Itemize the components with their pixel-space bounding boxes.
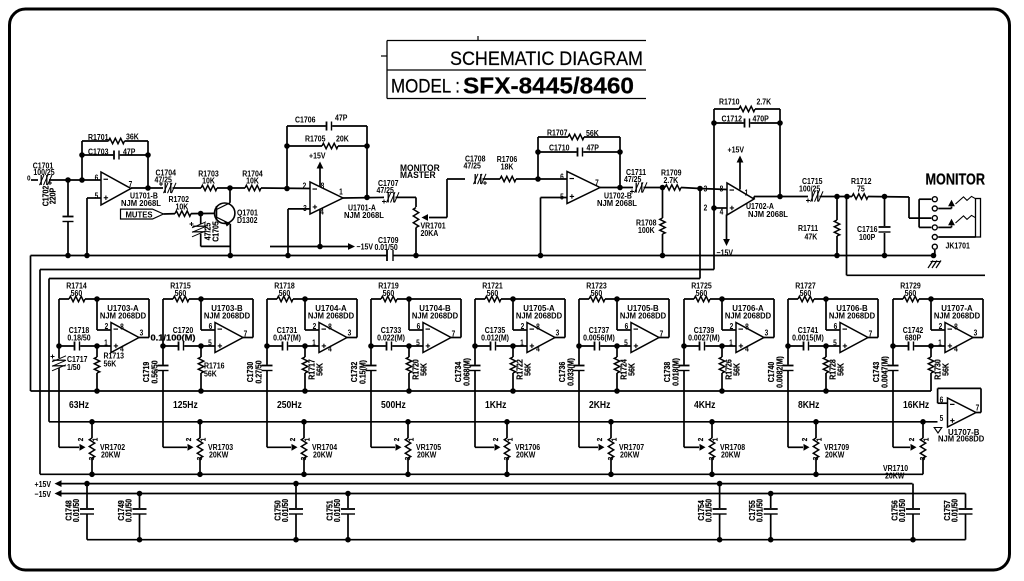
- junction C1750 bottom: [293, 537, 299, 543]
- junction C1710 right: [617, 149, 623, 155]
- svg-text:−15V: −15V: [35, 489, 52, 499]
- label 2KHz: [589, 398, 611, 410]
- wire band5 left: [474, 299, 476, 346]
- junction pin5 ground: [84, 253, 90, 259]
- wire R1702 to base: [191, 212, 215, 214]
- svg-text:NJM 2068DD: NJM 2068DD: [829, 311, 875, 320]
- junction U1701-A inv input: [284, 186, 290, 192]
- wire wiper band3: [267, 444, 298, 451]
- wire rail to gnd bus: [31, 256, 932, 392]
- resistor R1711: [798, 197, 840, 256]
- junction VR1705 top: [405, 419, 411, 425]
- capacitor C1706: [287, 113, 367, 131]
- capacitor C1702: [41, 180, 74, 256]
- wire feedback 4: [451, 299, 461, 338]
- svg-text:2: 2: [802, 438, 810, 442]
- junction VR1701 rail: [413, 253, 419, 259]
- svg-text:0.033(M): 0.033(M): [566, 358, 576, 386]
- junction monitor line tap: [844, 194, 850, 200]
- svg-text:1: 1: [408, 438, 416, 442]
- svg-text:SFX-8445/8460: SFX-8445/8460: [463, 73, 634, 99]
- wire band2 left: [162, 299, 164, 346]
- svg-text:500Hz: 500Hz: [381, 398, 406, 410]
- wire input: [31, 179, 38, 181]
- svg-text:3: 3: [140, 328, 144, 338]
- title block box: [381, 36, 646, 99]
- svg-text:8KHz: 8KHz: [798, 398, 820, 410]
- svg-text:0.01/50: 0.01/50: [704, 499, 714, 522]
- junction R1725 right: [719, 296, 725, 302]
- wire pin2 band3: [305, 299, 319, 330]
- ground rail: [31, 255, 934, 257]
- junction base node: [198, 211, 204, 217]
- model label MODEL :: [391, 77, 460, 98]
- svg-text:100K: 100K: [638, 225, 655, 235]
- junction VR1704 top: [301, 419, 307, 425]
- wire feedback 9: [973, 299, 983, 338]
- svg-text:0.01/50: 0.01/50: [332, 499, 342, 522]
- wire pin5: [87, 198, 101, 256]
- op-amp U1706-B: [829, 304, 875, 353]
- svg-text:56K: 56K: [419, 363, 429, 376]
- svg-text:R1707: R1707: [547, 128, 568, 138]
- junction C1749 bottom: [137, 537, 143, 543]
- wire fb left arm: [286, 126, 288, 189]
- junction emitter rail: [228, 253, 234, 259]
- jack JK1701: [919, 196, 980, 255]
- svg-text:6: 6: [560, 172, 564, 182]
- junction R1723 right: [614, 296, 620, 302]
- svg-text:8: 8: [954, 322, 958, 332]
- wire feedback right: [147, 141, 149, 188]
- capacitor C1712: [714, 114, 780, 128]
- svg-text:NJM 2068DD: NJM 2068DD: [934, 311, 980, 320]
- capacitor C1756: [890, 484, 920, 540]
- node input 0: [27, 175, 31, 183]
- svg-text:2: 2: [78, 438, 86, 442]
- wire pin2 band9: [931, 299, 945, 330]
- junction VR1705 bottom: [405, 472, 411, 478]
- svg-text:8: 8: [120, 322, 124, 332]
- junction VR1708 bottom: [709, 472, 715, 478]
- svg-text:7: 7: [595, 178, 599, 188]
- label 1KHz: [485, 398, 507, 410]
- label 63Hz: [69, 398, 89, 410]
- bus noninv eq: [40, 269, 714, 271]
- wire feedback 7: [764, 299, 774, 338]
- resistor R1720 56K: [406, 346, 429, 391]
- wire pin2 band5: [513, 299, 527, 330]
- op-amp U1702-B: [560, 172, 637, 209]
- resistor R1701: [82, 132, 148, 144]
- capacitor C1736: [557, 343, 584, 447]
- svg-text:0.0027(M): 0.0027(M): [688, 333, 720, 343]
- capacitor C1730: [245, 343, 272, 447]
- wire U1701-A noninv: [288, 209, 310, 256]
- capacitor C1717: [51, 343, 88, 447]
- svg-text:NJM 2068L: NJM 2068L: [121, 199, 161, 208]
- wire MUTES to R1702: [164, 213, 178, 215]
- op-amp U1705-B: [620, 304, 666, 353]
- junction C1712 left: [711, 120, 717, 126]
- svg-text:0.56/50: 0.56/50: [150, 360, 160, 383]
- wire pin2 band8: [826, 299, 840, 330]
- svg-text:NJM 2068DD: NJM 2068DD: [100, 311, 146, 320]
- svg-text:56K: 56K: [836, 363, 846, 376]
- resistor R1713 56K: [94, 346, 124, 391]
- svg-text:0.01/50: 0.01/50: [755, 499, 765, 522]
- svg-text:36K: 36K: [126, 132, 139, 142]
- svg-text:R1705: R1705: [305, 134, 326, 144]
- junction C1750 top: [293, 481, 299, 487]
- svg-text:7: 7: [976, 403, 980, 413]
- svg-text:18K: 18K: [501, 162, 514, 172]
- junction plus input band2: [198, 343, 204, 349]
- junction input node: [65, 177, 71, 183]
- junction C1756 bottom: [910, 537, 916, 543]
- wire collector: [229, 188, 231, 203]
- wire R1703 to R1704: [217, 187, 245, 189]
- power -15V rail: [35, 489, 966, 499]
- svg-text:560: 560: [279, 288, 291, 298]
- junction plus input band9: [928, 343, 934, 349]
- svg-text:20KW: 20KW: [885, 471, 905, 481]
- wire pin2 band6: [617, 299, 631, 330]
- svg-text:560: 560: [800, 288, 812, 298]
- svg-text:7: 7: [452, 329, 456, 339]
- junction feedback tap: [79, 177, 85, 183]
- wire R1704 to U1701-A: [261, 187, 310, 190]
- svg-text:0.047(M): 0.047(M): [273, 333, 301, 343]
- svg-text:NJM 2068DD: NJM 2068DD: [620, 311, 666, 320]
- svg-text:1/50: 1/50: [67, 362, 81, 372]
- label 250Hz: [277, 398, 302, 410]
- svg-text:47/25: 47/25: [155, 175, 173, 185]
- svg-text:C1705: C1705: [211, 221, 221, 242]
- svg-text:16KHz: 16KHz: [903, 398, 929, 410]
- svg-text:JK1701: JK1701: [946, 241, 971, 251]
- wire wiper band8: [788, 444, 810, 451]
- label MONITOR MASTER: [400, 162, 440, 180]
- svg-text:1: 1: [507, 438, 515, 442]
- capacitor C1715: [799, 176, 823, 202]
- svg-text:1KHz: 1KHz: [485, 398, 507, 410]
- wire band9 left: [892, 299, 894, 346]
- svg-text:C1710: C1710: [549, 143, 570, 153]
- junction C1702 ground: [65, 253, 71, 259]
- junction collector node: [227, 185, 233, 191]
- op-amp U1706-A: [725, 304, 771, 354]
- junction U1702-B inv: [535, 176, 541, 182]
- svg-text:47/25: 47/25: [377, 185, 395, 195]
- svg-text:3: 3: [704, 184, 708, 194]
- junction U1701-B out: [145, 185, 151, 191]
- junction VR1709 top: [813, 419, 819, 425]
- op-amp U1707-A: [934, 304, 980, 354]
- wire bus to VR bottom bus: [40, 270, 923, 475]
- junction VR1707 bottom: [608, 472, 614, 478]
- resistor R1724 56K: [614, 346, 637, 391]
- resistor R1727 560: [788, 281, 878, 302]
- svg-text:0.0047(M): 0.0047(M): [880, 356, 890, 388]
- svg-text:4: 4: [536, 344, 540, 354]
- wire wiper band1: [59, 444, 86, 451]
- junction C1754 top: [717, 481, 723, 487]
- wire C1707 to VR1701: [396, 197, 417, 207]
- flag MUTES: [121, 209, 164, 219]
- op-amp U1705-A: [516, 304, 562, 354]
- svg-text:1: 1: [92, 438, 100, 442]
- wire jack feed: [909, 197, 931, 218]
- svg-text:20KW: 20KW: [620, 450, 640, 460]
- junction plus input band7: [719, 343, 725, 349]
- junction R1728 gnd bus: [823, 388, 829, 394]
- svg-text:2: 2: [909, 438, 917, 442]
- svg-text:0.01/50: 0.01/50: [280, 499, 290, 522]
- svg-text:3: 3: [608, 457, 616, 461]
- title text SCHEMATIC DIAGRAM: [450, 49, 643, 70]
- wire pin4 down: [319, 209, 321, 247]
- svg-text:4KHz: 4KHz: [694, 398, 716, 410]
- resistor R1722 56K: [510, 346, 533, 391]
- resistor R1717 56K: [302, 346, 325, 391]
- capacitor C1757: [942, 494, 972, 540]
- svg-text:MODEL :: MODEL :: [391, 77, 460, 98]
- capacitor C1701: [33, 161, 56, 185]
- svg-text:10K: 10K: [176, 202, 189, 212]
- junction out fb2: [617, 185, 623, 191]
- svg-text:0.01/50: 0.01/50: [124, 499, 134, 522]
- capacitor C1718: [59, 325, 111, 350]
- wire C1708 to R1706: [483, 178, 501, 180]
- wire R1712 to C1716: [868, 196, 909, 199]
- capacitor C1742: [893, 325, 945, 350]
- capacitor C1734: [453, 343, 480, 447]
- wire wiper band2: [163, 444, 194, 451]
- svg-text:1: 1: [712, 438, 720, 442]
- svg-text:0.01/50: 0.01/50: [71, 499, 81, 522]
- svg-text:75: 75: [857, 184, 865, 194]
- resistor R1703: [198, 169, 219, 191]
- junction R1721 right: [510, 296, 516, 302]
- svg-text:2: 2: [303, 181, 307, 191]
- junction plus input band3: [302, 343, 308, 349]
- resistor R1705: [287, 134, 367, 149]
- svg-text:NJM 2068DD: NJM 2068DD: [308, 311, 354, 320]
- svg-text:4: 4: [954, 344, 958, 354]
- wire fb2 right arm: [619, 137, 621, 188]
- capacitor C1743: [871, 343, 898, 447]
- capacitor C1732: [349, 343, 376, 447]
- junction R1713 gnd bus: [94, 388, 100, 394]
- capacitor C1754: [697, 484, 727, 540]
- capacitor C1735: [475, 325, 527, 350]
- svg-text:C1712: C1712: [722, 114, 743, 124]
- wire input to opamp: [49, 179, 101, 181]
- svg-text:5: 5: [940, 414, 944, 424]
- svg-text:56K: 56K: [627, 363, 637, 376]
- wire band6 left: [578, 299, 580, 346]
- junction C1754 bottom: [717, 537, 723, 543]
- wire pin2 bus down: [713, 208, 715, 270]
- svg-text:3: 3: [197, 457, 205, 461]
- wire band1 left: [58, 299, 60, 346]
- junction C1749 top: [137, 491, 143, 497]
- junction R1727 right: [823, 296, 829, 302]
- wire fb2 left arm: [537, 137, 539, 179]
- model number SFX-8445/8460: [463, 73, 634, 99]
- svg-text:47P: 47P: [123, 147, 135, 157]
- junction C1751 bottom: [345, 537, 351, 543]
- capacitor C1707: [377, 178, 400, 203]
- junction plus input band8: [823, 343, 829, 349]
- svg-text:560: 560: [487, 288, 499, 298]
- op-amp U1703-A: [100, 304, 146, 354]
- junction VR1706 top: [504, 419, 510, 425]
- capacitor C1708: [464, 154, 488, 185]
- junction C1751 top: [345, 491, 351, 497]
- svg-text:20KW: 20KW: [209, 450, 229, 460]
- resistor R1708: [636, 188, 666, 256]
- svg-text:NJM 2068DD: NJM 2068DD: [412, 311, 458, 320]
- wire U1701-B output: [131, 187, 163, 189]
- wire wiper band9: [893, 444, 917, 451]
- svg-text:20KW: 20KW: [516, 450, 536, 460]
- junction jack ground: [931, 253, 937, 259]
- junction R1708 rail: [660, 253, 666, 259]
- op-amp U1707-B: [938, 388, 985, 443]
- svg-text:8: 8: [321, 181, 325, 191]
- junction eq feed: [697, 186, 703, 192]
- transistor Q1701: [215, 203, 259, 227]
- potentiometer VR1702: [78, 422, 126, 475]
- potentiometer VR1710: [883, 422, 931, 481]
- wire wiper to C1708: [447, 178, 465, 180]
- wire monitor aux: [847, 197, 986, 276]
- svg-text:NJM 2068L: NJM 2068L: [748, 210, 788, 219]
- svg-text:6: 6: [95, 173, 99, 183]
- capacitor C1755: [748, 494, 778, 540]
- svg-text:0.022(M): 0.022(M): [377, 333, 405, 343]
- capacitor C1704: [155, 168, 177, 193]
- wire band4 left: [370, 299, 372, 346]
- resistor R1702: [169, 194, 192, 216]
- svg-text:2: 2: [704, 203, 708, 213]
- junction pin5 rail: [538, 253, 544, 259]
- junction plus input band1: [94, 343, 100, 349]
- svg-text:7: 7: [244, 329, 248, 339]
- svg-text:100/25: 100/25: [33, 167, 55, 177]
- svg-text:56K: 56K: [586, 128, 599, 138]
- junction R1719 right: [406, 296, 412, 302]
- svg-text:560: 560: [591, 288, 603, 298]
- potentiometer VR1705: [394, 422, 442, 475]
- svg-text:8: 8: [745, 322, 749, 332]
- resistor R1730 56K: [928, 346, 951, 391]
- wire wiper band6: [579, 444, 605, 451]
- svg-text:NJM 2068DD: NJM 2068DD: [516, 311, 562, 320]
- svg-text:0.01/50: 0.01/50: [897, 499, 907, 522]
- capacitor C1720: [151, 325, 216, 350]
- svg-text:56K: 56K: [104, 359, 117, 369]
- junction VR1707 top: [608, 419, 614, 425]
- capacitor C1711: [624, 167, 647, 193]
- svg-text:NJM 2068L: NJM 2068L: [597, 199, 637, 208]
- junction R1711 top: [834, 194, 840, 200]
- ground arrow U1707-B: [934, 428, 942, 434]
- capacitor C1710: [538, 143, 620, 157]
- wire R1706 to U1702-B: [516, 178, 567, 180]
- svg-text:2: 2: [597, 438, 605, 442]
- svg-text:560: 560: [696, 288, 708, 298]
- label MONITOR: [926, 172, 986, 189]
- junction R1720 gnd bus: [406, 388, 412, 394]
- wire feedback 5: [555, 299, 565, 338]
- junction R1717 gnd bus: [302, 388, 308, 394]
- junction VR1706 bottom: [504, 472, 510, 478]
- svg-text:6: 6: [940, 395, 944, 405]
- junction plus input band6: [614, 343, 620, 349]
- bus inv eq: [49, 278, 700, 280]
- svg-text:7: 7: [869, 329, 873, 339]
- svg-text:47/25: 47/25: [624, 174, 642, 184]
- resistor R1709: [661, 168, 682, 191]
- svg-text:MASTER: MASTER: [400, 170, 436, 181]
- resistor R1716 56K: [198, 346, 225, 391]
- wire feedback 2: [243, 299, 253, 338]
- junction U1702-A pin2: [711, 205, 717, 211]
- svg-text:125Hz: 125Hz: [173, 398, 198, 410]
- svg-text:1: 1: [200, 438, 208, 442]
- capacitor C1733: [371, 325, 423, 350]
- potentiometer VR1701: [413, 179, 447, 256]
- junction R1726 gnd bus: [719, 388, 725, 394]
- svg-text:560: 560: [175, 288, 187, 298]
- wire U1702-A out: [754, 197, 808, 200]
- wire pin2 band4: [409, 299, 423, 330]
- svg-text:0.27/50: 0.27/50: [254, 360, 264, 383]
- resistor R1721 560: [475, 281, 565, 302]
- power +15V U1701-A: [309, 151, 326, 187]
- junction C1703 left: [79, 152, 85, 158]
- svg-text:C1706: C1706: [295, 115, 316, 125]
- junction R1722 gnd bus: [510, 388, 516, 394]
- capacitor C1750: [273, 484, 303, 540]
- svg-text:3: 3: [709, 457, 717, 461]
- junction R1711 rail: [834, 253, 840, 259]
- svg-text:20KW: 20KW: [825, 450, 845, 460]
- svg-text:NJM 2068DD: NJM 2068DD: [938, 434, 984, 443]
- capacitor C1741: [788, 325, 840, 350]
- svg-text:63Hz: 63Hz: [69, 398, 89, 410]
- bottom return line: [87, 539, 966, 541]
- wire feedback 8: [868, 299, 878, 338]
- svg-text:470P: 470P: [753, 114, 769, 124]
- svg-text:1: 1: [611, 438, 619, 442]
- wire band8 left: [787, 299, 789, 346]
- wire feedback 1: [139, 299, 149, 338]
- wire wiper band5: [475, 444, 501, 451]
- op-amp U1701-A: [303, 181, 384, 220]
- svg-text:2: 2: [290, 438, 298, 442]
- svg-text:4: 4: [328, 344, 332, 354]
- junction out fb3: [777, 194, 783, 200]
- svg-text:560: 560: [71, 288, 83, 298]
- capacitor C1716: [857, 197, 891, 256]
- junction out fb: [364, 195, 370, 201]
- op-amp U1703-B: [204, 304, 250, 353]
- svg-text:56K: 56K: [941, 363, 951, 376]
